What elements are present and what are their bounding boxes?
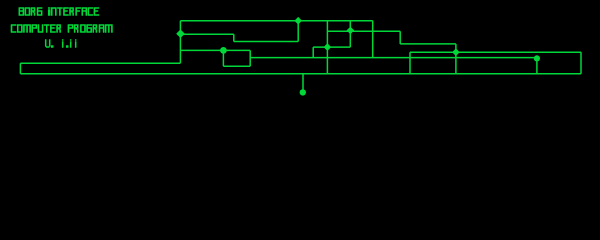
wire V drop to node N8 <box>302 74 304 90</box>
wire H right box top <box>410 51 581 53</box>
wire V above node N4 path <box>349 21 351 47</box>
wire H middle bus <box>250 57 537 59</box>
node N2 (diamond junction) <box>176 29 185 38</box>
wire H bottom of U shape <box>223 65 250 67</box>
node N4 (diamond junction) <box>324 43 332 51</box>
wire V right of U shape <box>249 50 251 66</box>
wire H1 top bus <box>180 20 372 22</box>
wire V right end of H1 <box>372 21 374 58</box>
wire H through node N3 <box>180 49 250 51</box>
wire V left edge drop <box>19 63 21 74</box>
title line 3: V. 1.11 <box>45 39 76 48</box>
wire V right box side <box>580 52 582 74</box>
node N8 (round junction) <box>300 89 306 95</box>
wire H from node N2 <box>180 33 233 35</box>
wire H through node N4 <box>313 46 350 48</box>
wire V left of node N4 <box>312 47 314 58</box>
wire H left shelf <box>20 62 180 64</box>
node N7 (round junction) <box>534 55 540 61</box>
wire V below node N7 <box>536 58 538 74</box>
wire V through node N6 <box>455 44 457 74</box>
wire V step down <box>233 34 235 41</box>
wire V from node N1 <box>297 21 299 42</box>
wire V below node N3 <box>222 50 224 66</box>
title line 2: COMPUTER PROGRAM <box>11 24 113 33</box>
node N3 (round junction) <box>220 47 227 54</box>
wire V left box side <box>409 52 411 74</box>
node N1 (diamond junction) <box>294 17 302 25</box>
wire H step bottom <box>234 41 298 43</box>
wire H through node N5 <box>327 30 400 32</box>
title line 1: BORG INTERFACE <box>19 7 100 16</box>
wire V left trunk <box>179 21 181 64</box>
wire H step at y44 <box>400 43 456 45</box>
node N6 (diamond junction) <box>452 48 460 56</box>
node N5 (diamond junction) <box>347 27 355 35</box>
wire V step at x400 <box>399 31 401 44</box>
wire H bottom bus <box>20 73 581 75</box>
wire V long mid trunk <box>326 21 328 74</box>
